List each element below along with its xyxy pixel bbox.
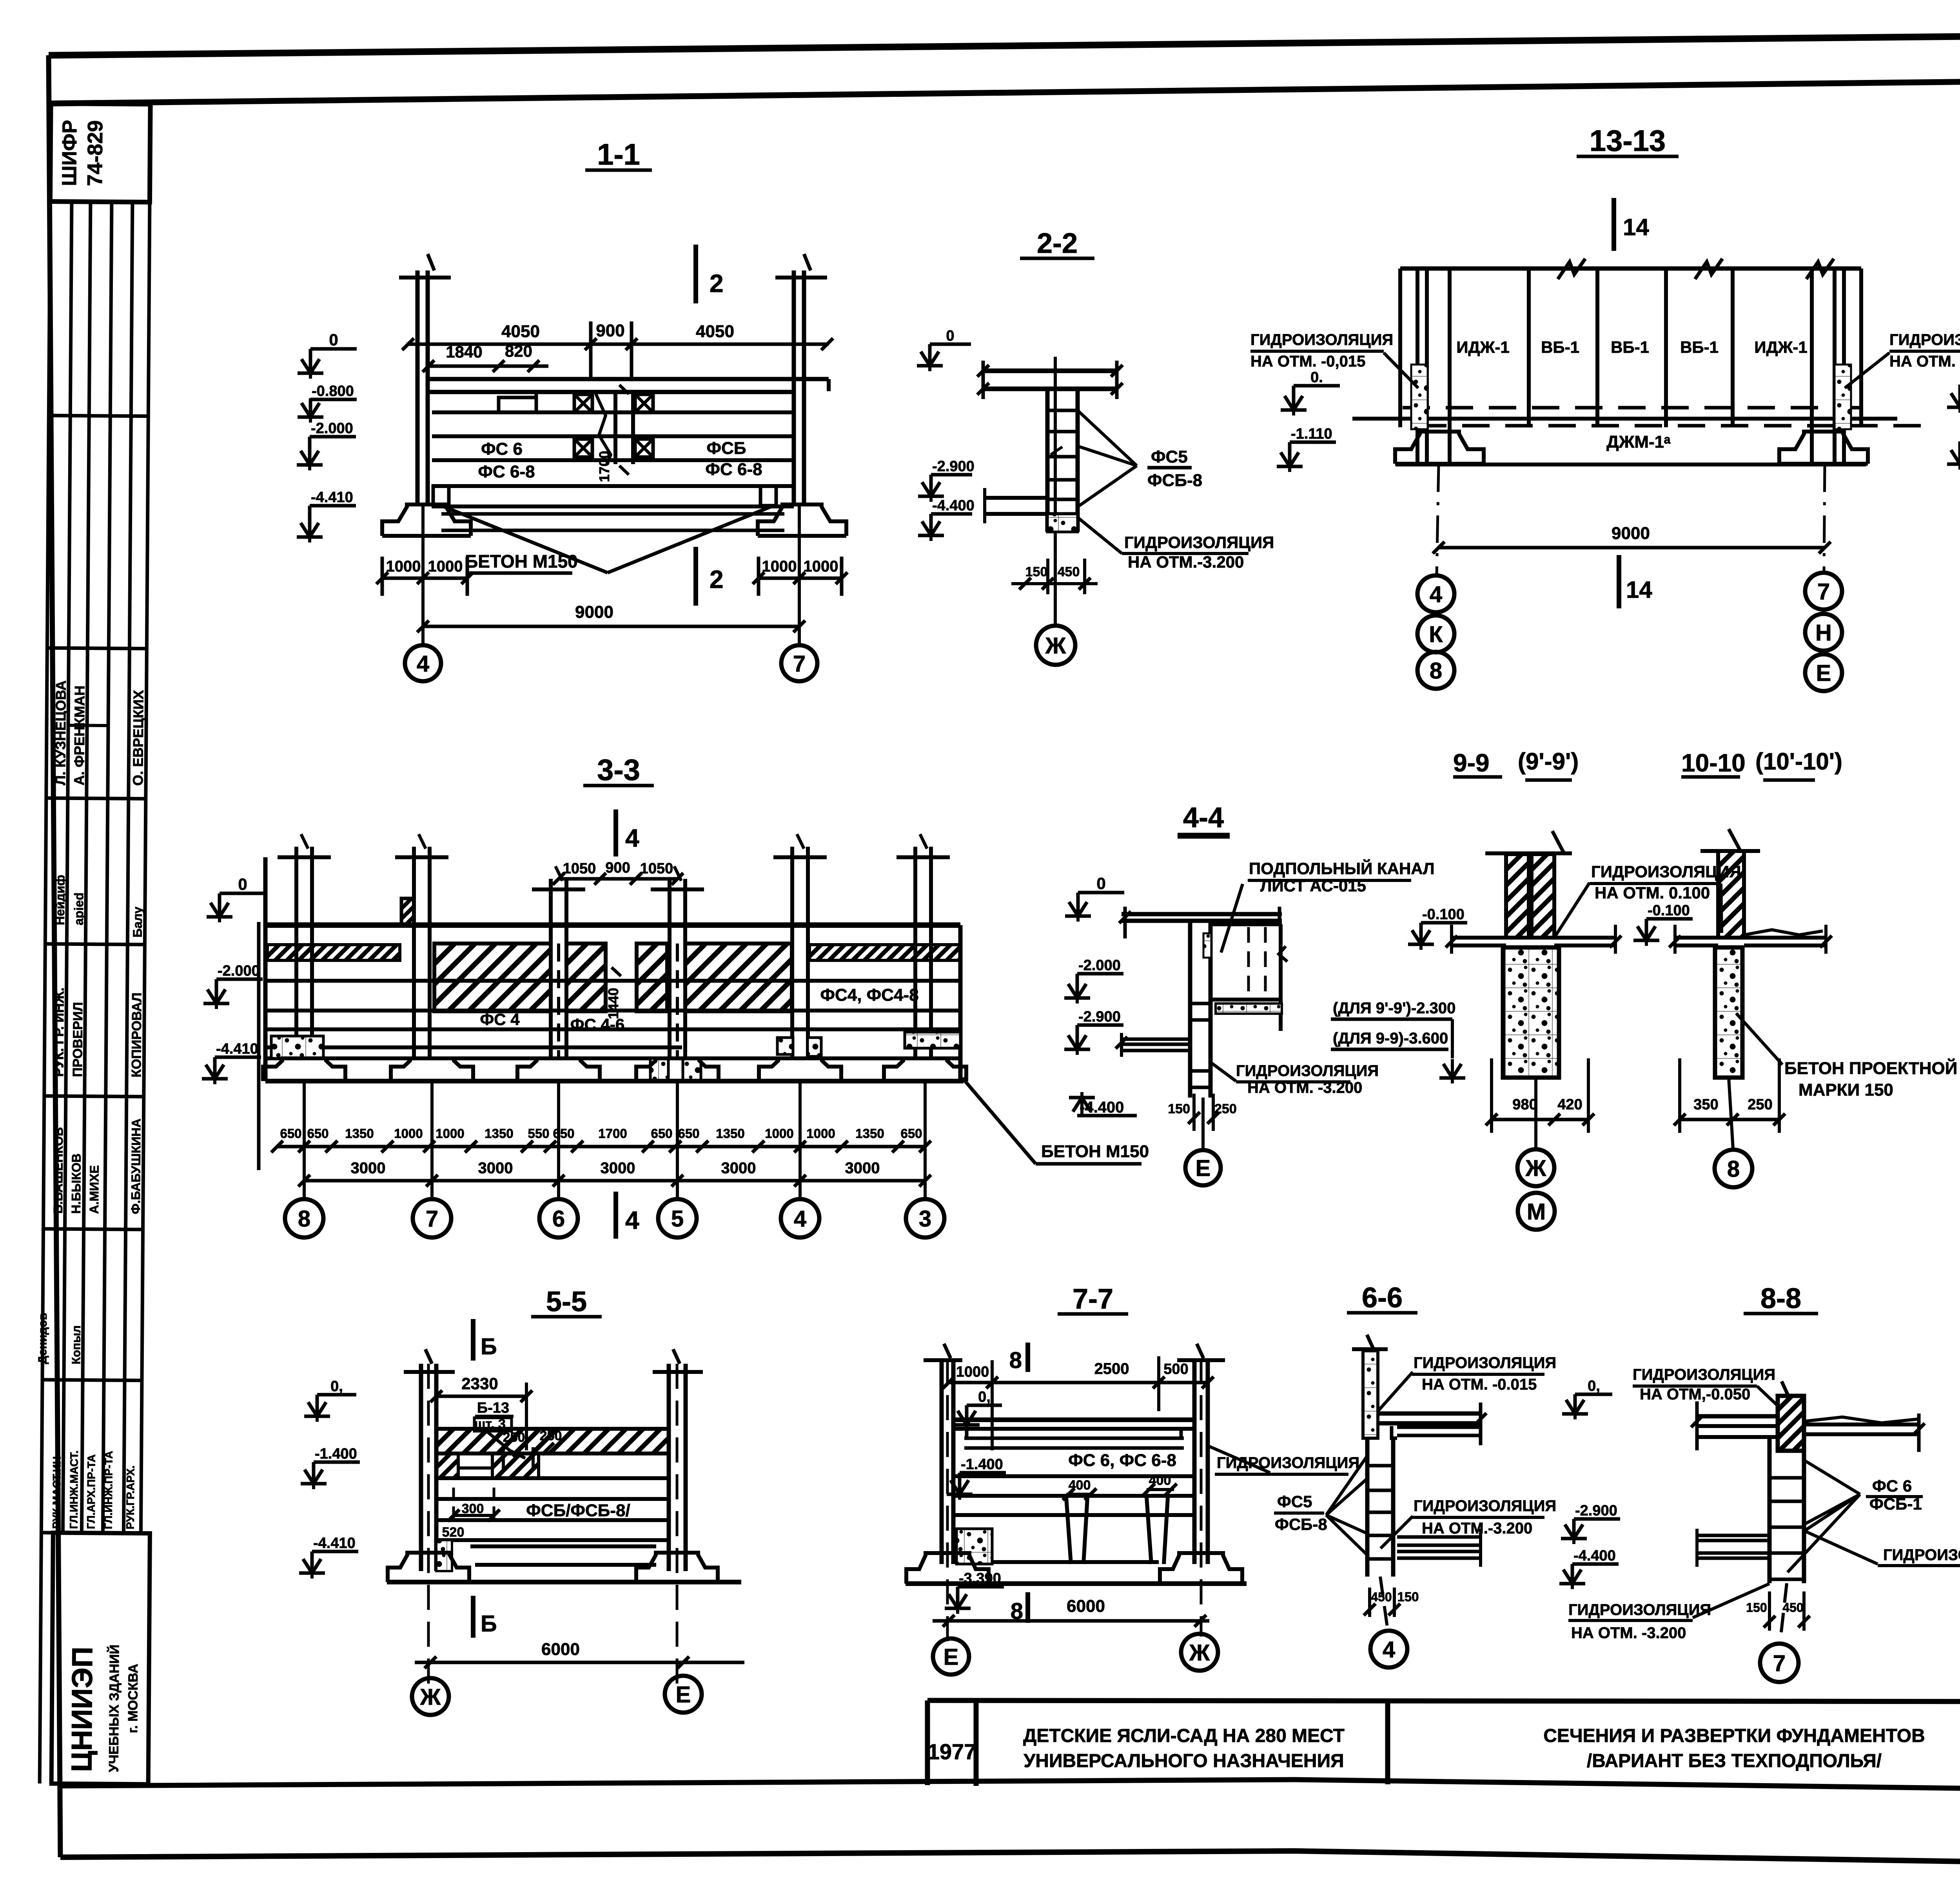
svg-text:1000: 1000 [394, 1126, 423, 1141]
section 13-13 left pilaster [1416, 269, 1419, 463]
svg-text:-1.110: -1.110 [1291, 426, 1332, 442]
svg-text:ФС 6: ФС 6 [481, 439, 523, 459]
svg-text:650: 650 [900, 1126, 922, 1141]
svg-text:ГИДРОИЗОЛЯЦИЯ: ГИДРОИЗОЛЯЦИЯ [1217, 1454, 1359, 1472]
svg-text:ФС 6-8: ФС 6-8 [478, 462, 535, 481]
svg-text:4050: 4050 [696, 322, 734, 341]
svg-text:350: 350 [1693, 1096, 1718, 1113]
svg-text:МАРКИ 150: МАРКИ 150 [1798, 1080, 1893, 1100]
svg-text:ФС 4-6: ФС 4-6 [570, 1015, 625, 1034]
section 7-7 axis circles Е Ж [933, 1639, 969, 1675]
svg-text:7: 7 [426, 1206, 438, 1232]
section 1-1 break line 1700 [596, 394, 611, 464]
svg-text:О. ЕВРЕЦКИХ: О. ЕВРЕЦКИХ [130, 690, 147, 786]
svg-text:0,: 0, [330, 1378, 343, 1395]
section 13-13 right pilaster [1810, 269, 1814, 463]
section 1-1 base mat [441, 512, 784, 516]
section 6-6 floor slab right [1378, 1412, 1482, 1416]
svg-text:ФС 6, ФС 6-8: ФС 6, ФС 6-8 [1068, 1451, 1176, 1470]
svg-text:1700: 1700 [598, 1126, 627, 1141]
svg-text:420: 420 [1557, 1096, 1582, 1113]
svg-text:8: 8 [1430, 658, 1442, 684]
svg-text:ГИДРОИЗОЛЯЦИЯ: ГИДРОИЗОЛЯЦИЯ [1633, 1366, 1775, 1383]
svg-text:820: 820 [505, 342, 532, 360]
section 2-2 label leaders [1078, 410, 1137, 466]
section 5-5 marker Б bottom [471, 1596, 475, 1638]
svg-text:РУК. ГР. ИНЖ.: РУК. ГР. ИНЖ. [51, 987, 67, 1077]
svg-text:3000: 3000 [845, 1159, 880, 1177]
svg-text:ФС 6: ФС 6 [1872, 1477, 1912, 1495]
svg-text:10-10: 10-10 [1681, 749, 1746, 777]
svg-text:apied: apied [72, 893, 86, 925]
svg-text:ГЛ.ИНЖ.МАСТ.: ГЛ.ИНЖ.МАСТ. [67, 1450, 80, 1529]
section 4-4 channel bottom concrete [1216, 1003, 1282, 1014]
frame: left border line [49, 55, 60, 1857]
section 10-10 floor lines [1675, 936, 1718, 940]
section 1-1 dimension row 1840-820 [428, 365, 548, 368]
svg-text:0: 0 [1096, 874, 1105, 893]
svg-text:3000: 3000 [351, 1159, 386, 1177]
section 13-13 wall elevation outline [1400, 267, 1861, 271]
svg-text:ГИДРОИЗОЛЯЦИЯ: ГИДРОИЗОЛЯЦИЯ [1124, 533, 1274, 552]
section 3-3 concrete leader [962, 1078, 1036, 1164]
svg-text:2330: 2330 [461, 1374, 498, 1393]
svg-text:НА ОТМ. -0.015: НА ОТМ. -0.015 [1422, 1376, 1537, 1393]
svg-text:Е: Е [944, 1644, 959, 1670]
svg-text:Ж: Ж [420, 1684, 441, 1710]
svg-text:ФСБ-1: ФСБ-1 [1869, 1495, 1922, 1513]
svg-text:520: 520 [442, 1525, 465, 1540]
svg-text:1000: 1000 [765, 1126, 793, 1141]
section 1-1 marker 2 bottom [693, 547, 698, 606]
svg-text:Н: Н [1815, 620, 1832, 646]
svg-text:13-13: 13-13 [1590, 124, 1666, 158]
section 1-1 dimension 9000 [423, 625, 799, 628]
svg-text:-0.100: -0.100 [1648, 902, 1690, 919]
svg-text:4: 4 [417, 651, 429, 677]
svg-text:1000: 1000 [956, 1364, 989, 1380]
svg-text:0: 0 [238, 875, 247, 893]
section 9-9 axis leader [1534, 1078, 1537, 1149]
section 1-1 corner blocks [433, 486, 449, 506]
svg-text:ГИДРОИЗОЛЯЦИЯ: ГИДРОИЗОЛЯЦИЯ [1883, 1546, 1960, 1564]
svg-text:(ДЛЯ 9'-9')-2.300: (ДЛЯ 9'-9')-2.300 [1333, 1000, 1455, 1017]
svg-text:0,: 0, [1588, 1378, 1600, 1394]
svg-text:А. ФРЕНКМАН: А. ФРЕНКМАН [71, 686, 88, 786]
section 2-2 axis circle Ж [1036, 626, 1075, 665]
svg-text:-1.400: -1.400 [961, 1456, 1003, 1473]
svg-text:0: 0 [329, 330, 338, 349]
section 1-1 crossed blocks lower [574, 439, 592, 457]
svg-text:Б: Б [481, 1334, 497, 1359]
svg-text:6-6: 6-6 [1362, 1282, 1403, 1314]
svg-text:ФСБ-8: ФСБ-8 [1275, 1515, 1327, 1533]
svg-text:(ДЛЯ 9-9)-3.600: (ДЛЯ 9-9)-3.600 [1333, 1030, 1448, 1047]
section 3-3 left edge [263, 857, 268, 1081]
svg-text:650: 650 [280, 1126, 301, 1141]
section 5-5 dim 2330 [436, 1395, 526, 1398]
section 5-5 mat slab [470, 1544, 656, 1548]
svg-text:А.МИХЕ: А.МИХЕ [87, 1165, 102, 1214]
frame: title row separator line [60, 1780, 1960, 1795]
svg-text:1350: 1350 [485, 1126, 513, 1141]
svg-text:-4.410: -4.410 [311, 489, 353, 506]
section 5-5 dim 6000 [415, 1661, 744, 1664]
svg-text:(9'-9'): (9'-9') [1518, 748, 1579, 775]
section 7-7 marker 8 bottom [1025, 1592, 1030, 1623]
section 13-13 break marks top [1558, 259, 1585, 279]
svg-text:150: 150 [1397, 1590, 1419, 1604]
section 3-3 left inner edge line [257, 922, 261, 1170]
section 6-6 lower wall [1365, 1438, 1370, 1577]
section 4-4 axis leader [1201, 1098, 1205, 1149]
svg-text:-2.000: -2.000 [1078, 957, 1121, 974]
section 6-6 upper wall concrete [1363, 1351, 1378, 1438]
left stamp column [33, 103, 159, 1784]
section 2-2 lower floor lines [985, 496, 1047, 500]
svg-text:(10'-10'): (10'-10') [1755, 748, 1842, 775]
section 8-8 floor right [1804, 1423, 1919, 1426]
svg-text:900: 900 [605, 860, 630, 876]
svg-text:650: 650 [307, 1126, 328, 1141]
svg-text:150: 150 [1746, 1600, 1767, 1615]
svg-text:ЛИСТ АС-015: ЛИСТ АС-015 [1260, 876, 1366, 895]
svg-text:-0.800: -0.800 [312, 383, 354, 399]
svg-text:БЕТОН М150: БЕТОН М150 [465, 551, 578, 572]
svg-text:8-8: 8-8 [1760, 1283, 1801, 1314]
svg-text:-1.400: -1.400 [315, 1446, 357, 1462]
svg-text:1000: 1000 [806, 1126, 835, 1141]
section 3-3 dims row small [277, 1145, 925, 1149]
section 3-3 floor line [265, 922, 960, 928]
section 3-3 top dims 1050 900 1050 [559, 877, 677, 881]
section 2-2 base block concrete [1047, 514, 1078, 532]
svg-text:1840: 1840 [446, 343, 482, 361]
svg-text:-2.900: -2.900 [932, 458, 975, 475]
section 5-5 marker Б top [471, 1319, 475, 1361]
svg-text:650: 650 [553, 1126, 574, 1141]
svg-text:3: 3 [919, 1206, 931, 1232]
svg-text:Балу: Балу [130, 907, 145, 938]
svg-text:ШИФР: ШИФР [58, 120, 81, 186]
section 3-3 block courses [265, 979, 960, 983]
section 5-5 concrete pad left [436, 1540, 452, 1571]
svg-text:-4.410: -4.410 [313, 1535, 356, 1551]
svg-text:ФС5: ФС5 [1151, 447, 1188, 466]
svg-text:250: 250 [1748, 1096, 1772, 1113]
svg-text:Денидов: Денидов [36, 1313, 49, 1364]
section 3-3 footings [263, 1058, 345, 1081]
section 1-1 left wall [416, 270, 420, 506]
svg-text:Е: Е [676, 1682, 691, 1707]
svg-text:Ж: Ж [1045, 633, 1066, 659]
section 4-4 axis circle Е [1185, 1150, 1221, 1185]
svg-text:-4.410: -4.410 [216, 1041, 258, 1057]
svg-text:1350: 1350 [716, 1126, 744, 1141]
svg-text:-4.400: -4.400 [932, 497, 975, 514]
section 2-2 axis centerline [1054, 357, 1057, 626]
section 9-9 dims 980 420 [1492, 1118, 1588, 1121]
section 1-1 dimension row 4050-900-4050 [407, 343, 829, 346]
section 1-1 crossed blocks upper [574, 394, 592, 412]
section 6-6 lower floor right [1397, 1535, 1481, 1539]
section 1-1 right wall [792, 270, 796, 506]
section 13-13 marker 14 bottom [1617, 555, 1621, 608]
section 13-13 marker 14 top [1612, 198, 1616, 251]
frame: inner top border line [50, 76, 1960, 103]
svg-text:3000: 3000 [721, 1159, 756, 1177]
svg-text:ИДЖ-1: ИДЖ-1 [1456, 338, 1509, 356]
svg-text:7: 7 [1773, 1651, 1786, 1676]
section 8-8 floor left [1697, 1414, 1778, 1419]
section 1-1 floor slab [428, 377, 829, 381]
section 5-5 axis circles Ж Е [412, 1678, 449, 1715]
svg-text:250: 250 [540, 1428, 562, 1443]
section 1-1 right footing dims 1000 1000 [759, 577, 842, 580]
svg-text:НА ОТМ.-3.200: НА ОТМ.-3.200 [1422, 1520, 1532, 1537]
svg-text:1000: 1000 [762, 558, 797, 575]
svg-text:1700: 1700 [596, 451, 612, 482]
section 7-7 marker 8 top [1025, 1343, 1030, 1372]
svg-text:К: К [1429, 622, 1443, 647]
svg-text:/ВАРИАНТ БЕЗ ТЕХПОДПОЛЬЯ/: /ВАРИАНТ БЕЗ ТЕХПОДПОЛЬЯ/ [1587, 1751, 1882, 1771]
section 5-5 right wall [667, 1364, 671, 1571]
svg-text:Л. КУЗНЕЦОВА: Л. КУЗНЕЦОВА [52, 680, 69, 785]
section 3-3 marker 4 top [613, 809, 618, 856]
section 4-4 lower floor lines [1122, 1038, 1190, 1041]
svg-text:-2.000: -2.000 [218, 963, 260, 979]
svg-text:ВБ-1: ВБ-1 [1611, 338, 1649, 356]
svg-text:1050: 1050 [640, 860, 673, 877]
svg-text:1000: 1000 [804, 558, 838, 575]
svg-text:НА ОТМ. -3.200: НА ОТМ. -3.200 [1247, 1079, 1362, 1096]
section 7-7 left concrete pad [956, 1529, 992, 1564]
svg-text:8: 8 [1727, 1156, 1740, 1182]
section 4-4 floor slab [1122, 912, 1282, 916]
svg-text:3-3: 3-3 [597, 753, 640, 787]
svg-text:4050: 4050 [501, 322, 540, 341]
section 10-10 axis leader [1729, 1078, 1733, 1149]
svg-text:6000: 6000 [1067, 1597, 1105, 1616]
svg-text:7: 7 [793, 651, 806, 677]
svg-text:9000: 9000 [1612, 524, 1650, 543]
section 3-3 axis leaders [303, 1081, 306, 1199]
svg-text:ГЛ.ИНЖ.ПР-ТА: ГЛ.ИНЖ.ПР-ТА [102, 1451, 114, 1529]
section 1-1 middle pier [613, 392, 617, 464]
svg-text:550: 550 [528, 1126, 549, 1141]
section 1-1 left footing [382, 504, 471, 536]
svg-text:ВБ-1: ВБ-1 [1541, 338, 1579, 356]
svg-text:РУК.ГР.АРХ.: РУК.ГР.АРХ. [124, 1465, 136, 1529]
section 2-2 floor slab [983, 368, 1117, 373]
title block divider after 1977 [974, 1700, 979, 1786]
svg-text:ВБ-1: ВБ-1 [1680, 338, 1719, 356]
svg-text:1977: 1977 [927, 1739, 976, 1764]
svg-text:ФС4, ФС4-8: ФС4, ФС4-8 [820, 985, 918, 1005]
svg-text:14: 14 [1626, 577, 1652, 603]
section 7-7 top dims 1000 2500 500 [949, 1381, 1208, 1384]
title block top line [927, 1700, 1960, 1702]
svg-text:ГИДРОИЗОЛЯЦИЯ: ГИДРОИЗОЛЯЦИЯ [1568, 1601, 1711, 1619]
svg-text:ДЕТСКИЕ ЯСЛИ-САД НА 280 МЕСТ: ДЕТСКИЕ ЯСЛИ-САД НА 280 МЕСТ [1023, 1726, 1345, 1746]
section 13-13 right footing [1779, 432, 1868, 464]
section 8-8 axis circle 7 [1760, 1644, 1798, 1682]
svg-text:НА ОТМ,-0.050: НА ОТМ,-0.050 [1640, 1386, 1750, 1403]
section 13-13 axis circles left 4 К 8 [1417, 575, 1454, 612]
svg-text:6: 6 [552, 1206, 565, 1232]
svg-text:2-2: 2-2 [1037, 228, 1078, 259]
svg-text:ИДЖ-1: ИДЖ-1 [1754, 338, 1807, 356]
svg-text:9000: 9000 [575, 602, 613, 622]
svg-text:6000: 6000 [541, 1640, 580, 1659]
svg-text:7-7: 7-7 [1073, 1283, 1113, 1315]
svg-text:Копыл: Копыл [70, 1325, 83, 1365]
section 1-1 axis circle 7 [781, 645, 817, 681]
section 13-13 vertical joints [1527, 269, 1531, 427]
svg-text:СЕЧЕНИЯ И РАЗВЕРТКИ ФУНДАМЕ: СЕЧЕНИЯ И РАЗВЕРТКИ ФУНДАМЕНТОВ [1543, 1726, 1925, 1746]
section 2-2 wall column [1045, 389, 1050, 532]
svg-text:Б-13: Б-13 [477, 1400, 509, 1416]
svg-text:ФСБ-8: ФСБ-8 [1147, 471, 1202, 490]
section 1-1 axis circle 4 [405, 645, 441, 681]
svg-text:Н.БЫКОВ: Н.БЫКОВ [69, 1154, 83, 1214]
section 3-3 right edge [958, 925, 963, 1081]
svg-text:250: 250 [503, 1430, 525, 1445]
frame: bottom border line [60, 1851, 1960, 1871]
svg-text:4: 4 [1383, 1637, 1395, 1662]
svg-text:9-9: 9-9 [1453, 749, 1490, 777]
section 8-8 wall below [1768, 1436, 1772, 1583]
svg-text:ФС 4: ФС 4 [480, 1010, 520, 1029]
section 5-5 footings [388, 1553, 469, 1582]
svg-text:3000: 3000 [478, 1159, 513, 1177]
svg-text:4: 4 [794, 1206, 806, 1232]
svg-text:БЕТОН М150: БЕТОН М150 [1041, 1142, 1149, 1161]
title block divider after project name [1385, 1699, 1390, 1784]
frame: outer top border line [49, 31, 1960, 55]
svg-text:150: 150 [1025, 564, 1048, 579]
section 3-3 marker 4 bottom [613, 1192, 618, 1239]
svg-text:-2.900: -2.900 [1575, 1502, 1617, 1519]
section 7-7 left wall [940, 1358, 944, 1564]
svg-text:4: 4 [625, 1206, 639, 1234]
svg-text:Е: Е [1196, 1156, 1211, 1181]
svg-text:УЧЕБНЫХ ЗДАНИЙ: УЧЕБНЫХ ЗДАНИЙ [106, 1644, 122, 1772]
section 3-3 concrete pads [271, 1036, 323, 1058]
svg-text:Ж: Ж [1189, 1640, 1210, 1666]
section 7-7 footings [906, 1553, 989, 1584]
section 6-6 axis circle 4 [1370, 1631, 1407, 1668]
section 13-13 dashed line [1403, 406, 1861, 410]
svg-text:150: 150 [1168, 1101, 1190, 1116]
svg-text:-0.100: -0.100 [1422, 906, 1465, 923]
svg-text:-4.400: -4.400 [1573, 1548, 1616, 1564]
svg-text:ЦНИИЭП: ЦНИИЭП [65, 1647, 98, 1772]
svg-text:5: 5 [671, 1206, 684, 1232]
svg-text:8: 8 [1009, 1348, 1022, 1373]
section 8-8 axis leader [1780, 1583, 1787, 1642]
svg-text:1440: 1440 [605, 988, 621, 1019]
section 13-13 dimension 9000 [1439, 546, 1825, 550]
svg-text:4: 4 [1430, 582, 1442, 607]
svg-text:НА ОТМ. -0,015: НА ОТМ. -0,015 [1250, 353, 1365, 370]
svg-text:ПРОВЕРИЛ: ПРОВЕРИЛ [70, 1002, 85, 1077]
section 3-3 dims row 3000 [304, 1179, 925, 1183]
svg-text:1350: 1350 [855, 1126, 884, 1141]
svg-text:7: 7 [1817, 579, 1830, 604]
svg-text:ГИДРОИЗОЛЯЦИЯ: ГИДРОИЗОЛЯЦИЯ [1250, 331, 1393, 348]
section 7-7 mat slab [992, 1560, 1159, 1564]
svg-text:1000: 1000 [428, 558, 463, 575]
svg-text:74-829: 74-829 [83, 120, 107, 186]
section 7-7 dim 6000 [933, 1619, 1209, 1623]
svg-text:Б: Б [481, 1611, 497, 1637]
svg-text:ГИДРОИЗОЛЯЦИЯ: ГИДРОИЗОЛЯЦИЯ [1414, 1354, 1556, 1372]
svg-text:ГЛ.АРХ.ПР-ТА: ГЛ.АРХ.ПР-ТА [85, 1454, 97, 1529]
svg-text:ФС5: ФС5 [1277, 1492, 1312, 1511]
svg-text:Нейдиф: Нейдиф [53, 875, 67, 925]
svg-text:2500: 2500 [1094, 1360, 1129, 1377]
svg-text:-2.000: -2.000 [311, 420, 353, 437]
svg-text:ФСБ/ФСБ-8/: ФСБ/ФСБ-8/ [526, 1501, 630, 1520]
svg-text:4-4: 4-4 [1183, 802, 1224, 833]
svg-text:5-5: 5-5 [546, 1286, 587, 1317]
svg-text:г. МОСКВА: г. МОСКВА [125, 1664, 141, 1733]
svg-text:НА ОТМ. 0.100: НА ОТМ. 0.100 [1595, 884, 1710, 902]
section 4-4 channel box [1210, 922, 1282, 926]
svg-text:КОПИРОВАЛ: КОПИРОВАЛ [129, 993, 144, 1078]
svg-text:ФС 6-8: ФС 6-8 [705, 460, 762, 479]
svg-text:НА ОТМ. -0,019: НА ОТМ. -0,019 [1889, 353, 1960, 370]
section 9-9 concrete pier [1503, 947, 1559, 1078]
svg-text:900: 900 [596, 321, 624, 340]
svg-text:650: 650 [651, 1126, 672, 1141]
svg-text:БЕТОН ПРОЕКТНОЙ: БЕТОН ПРОЕКТНОЙ [1784, 1058, 1957, 1078]
svg-text:ДЖМ-1ᵃ: ДЖМ-1ᵃ [1606, 432, 1671, 452]
section 6-6 axis leader [1380, 1577, 1388, 1630]
section 5-5 left wall [419, 1364, 423, 1571]
svg-text:0,: 0, [978, 1389, 991, 1405]
section 8-8 lower floor left [1697, 1534, 1769, 1537]
svg-text:1000: 1000 [436, 1126, 464, 1141]
svg-text:450: 450 [1058, 564, 1080, 579]
svg-text:0.: 0. [1310, 369, 1323, 386]
section 7-7 block courses [953, 1474, 1194, 1478]
section 1-1 concrete leader lines [443, 506, 608, 573]
section 9-9 floor lines [1452, 936, 1506, 940]
svg-text:980: 980 [1512, 1096, 1537, 1113]
svg-text:ГИДРОИЗОЛЯЦИЯ: ГИДРОИЗОЛЯЦИЯ [1414, 1497, 1556, 1515]
svg-text:2: 2 [710, 565, 724, 593]
section 13-13 axis circles right 7 Н Е [1805, 573, 1842, 610]
svg-text:ГИДРОИЗОЛЯЦИЯ: ГИДРОИЗОЛЯЦИЯ [1236, 1062, 1379, 1080]
title block divider 1977 left [925, 1700, 930, 1785]
section 3-3 wall columns [294, 847, 298, 1058]
svg-text:М: М [1527, 1199, 1546, 1225]
section 10-10 concrete pier [1715, 947, 1742, 1078]
section 1-1 axis leaders [421, 506, 425, 646]
svg-text:8: 8 [298, 1206, 310, 1232]
svg-text:14: 14 [1623, 214, 1649, 240]
svg-text:Ф.БАБУШКИНА: Ф.БАБУШКИНА [129, 1118, 143, 1214]
section 1-1 step detail 1840/820 [499, 392, 536, 412]
section 7-7 floor slab [955, 1417, 1194, 1422]
svg-text:650: 650 [678, 1126, 699, 1141]
section 1-1 block courses [432, 410, 794, 414]
svg-text:2: 2 [710, 269, 724, 298]
svg-text:1000: 1000 [386, 558, 421, 575]
section 1-1 marker 2 top [693, 245, 698, 303]
